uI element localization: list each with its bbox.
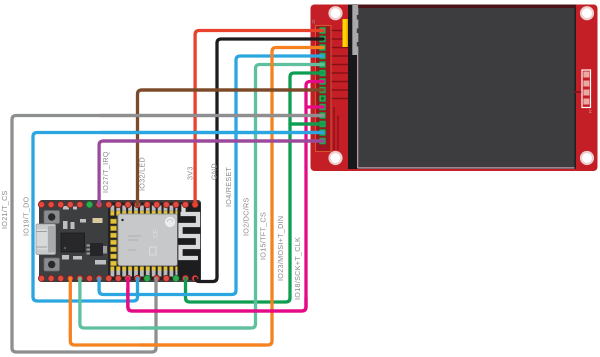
mounting hole bottom-left [330,152,342,164]
wire IO2/DC/RS (teal) [80,65,323,329]
svg-text:IO27/T_IRQ: IO27/T_IRQ [101,151,110,193]
micro-USB connector [36,224,56,255]
wire 3V3 (red) [195,31,323,206]
button BOOT [44,258,60,271]
ESP32-WROOM module [108,203,201,281]
svg-text:GND: GND [210,163,219,180]
mounting hole bottom-right [581,152,593,164]
wire IO4/RESET (blue) [99,56,323,295]
wire IO32/LED (brown) [138,90,324,205]
wire IO18/SCK+T_CLK (magenta) [128,82,323,312]
wire segment gray over verticals [100,114,323,117]
LCD screen [357,5,576,170]
mounting hole top-left [330,7,342,19]
button EN [44,211,60,224]
header J2 [311,19,331,151]
svg-text:IO4/RESET: IO4/RESET [224,166,233,207]
wire segment purple over verticals [103,139,323,142]
svg-text:IO21/T_CS: IO21/T_CS [0,190,9,229]
wire segment orange bottom over gray [140,343,265,346]
antenna [178,203,201,281]
left castellation pads [111,219,117,266]
TFT display module board [311,5,598,172]
ESP32 DevKitC board U1 [39,200,201,282]
faint text [128,236,141,250]
espressif logo [165,217,175,227]
small passives [62,206,106,265]
bottom castellation row [111,267,180,277]
trace bundle J2 to screen [330,31,350,151]
screen flex strip [348,5,357,170]
svg-text:IO32/LED: IO32/LED [138,157,147,191]
svg-text:3V3: 3V3 [186,166,195,180]
wire segment magenta bottom over gray/blue [128,288,306,311]
svg-text:IO15/TFT_CS: IO15/TFT_CS [259,212,268,260]
wire IO15/TFT_CS (orange) [70,48,323,346]
svg-text:IO2/DC/RS: IO2/DC/RS [242,197,251,236]
connector J4 [575,70,594,114]
WIRE OVERLAYS (z-order fixes) [100,90,323,345]
wire IO27/T_IRQ (purple) [99,141,323,205]
wire segment blue T_DO over verticals [101,131,323,134]
wire GND (black) [196,39,324,282]
shield [118,214,178,266]
net labels [0,151,302,300]
wire segment teal bottom over gray [140,326,250,329]
ESP32 bottom GPIO pin row [38,275,198,281]
IC U2 CP2102 [61,233,85,252]
mounting hole top-right [581,7,593,19]
wire IO19/T_DO (blue) [33,133,323,302]
flex connector [352,5,360,55]
wire segment green stub pin12 [290,122,323,125]
top castellation row [111,206,180,216]
regulator U3 AMS1117 [87,243,108,256]
ESP32 top GPIO pin row [38,201,198,207]
WEEE mark [150,247,157,255]
wire IO21/T_CS (gray) [12,116,323,353]
capacitor C1 (yellow) [343,19,349,47]
svg-text:IO19/T_DO: IO19/T_DO [21,196,30,236]
svg-text:IO18/SCK+T_CLK: IO18/SCK+T_CLK [293,237,302,300]
svg-text:CE: CE [153,228,160,238]
wire IO23/MOSI+T_DIN (green) [186,73,324,302]
svg-text:J2: J2 [311,19,317,24]
WIRES BASE [12,31,323,353]
svg-text:IO23/MOSI+T_DIN: IO23/MOSI+T_DIN [276,216,285,281]
wire segment brown over verticals [141,88,323,91]
